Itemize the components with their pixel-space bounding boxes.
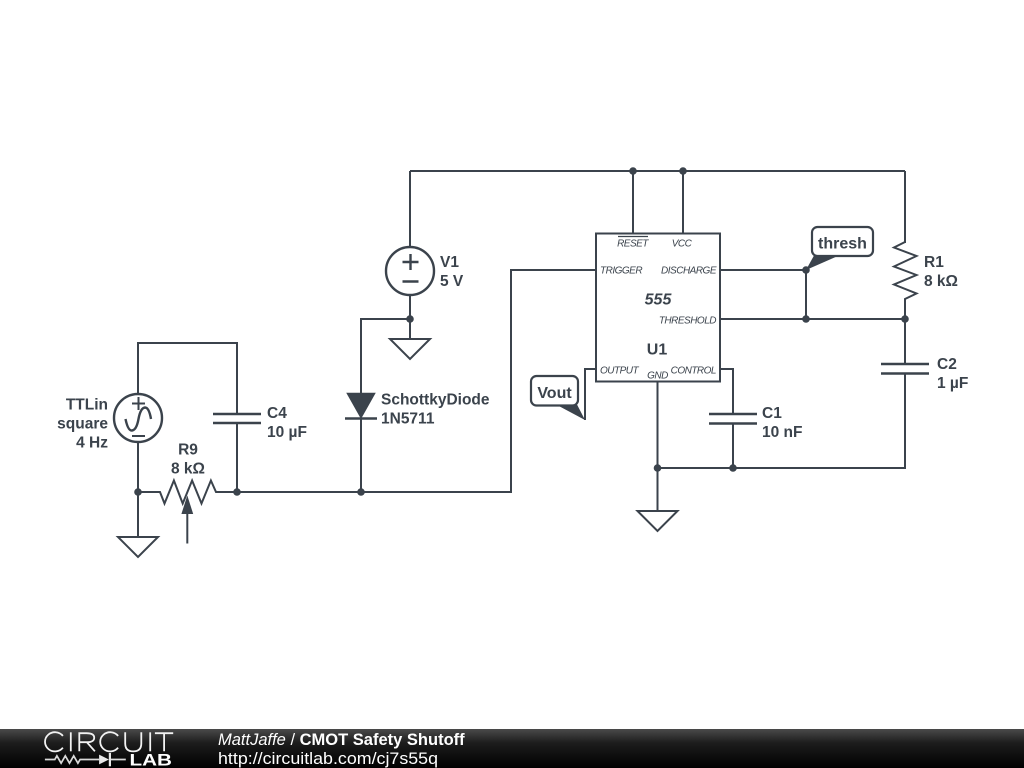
svg-text:CONTROL: CONTROL <box>671 366 716 377</box>
svg-text:THRESHOLD: THRESHOLD <box>659 316 716 327</box>
svg-text:LAB: LAB <box>130 751 173 768</box>
wire rail down to R1 <box>904 171 906 243</box>
node diode junction <box>357 488 365 496</box>
node junction RESET on rail <box>629 167 637 175</box>
wire C2 down to bottom net <box>658 374 905 469</box>
capacitor C2 <box>881 356 968 392</box>
svg-text:Vout: Vout <box>537 385 572 402</box>
svg-text:C4: C4 <box>267 405 287 422</box>
wire GND pin down <box>657 382 659 469</box>
svg-text:GND: GND <box>647 371 668 382</box>
wire V1 to ground node <box>409 295 411 319</box>
svg-text:TRIGGER: TRIGGER <box>600 266 642 277</box>
voltage source V2 TTLin <box>57 394 162 452</box>
flag Vout <box>531 376 585 420</box>
wire V1 minus to diode anode <box>361 319 410 393</box>
node GND junction <box>654 464 662 472</box>
svg-text:V1: V1 <box>440 254 459 271</box>
wire C4 down to node <box>236 423 238 492</box>
svg-text:thresh: thresh <box>818 236 867 253</box>
ground G2 <box>118 492 158 557</box>
voltage source V1 <box>386 247 464 295</box>
node discharge junction <box>802 266 810 274</box>
svg-text:1 µF: 1 µF <box>937 375 968 392</box>
svg-text:C2: C2 <box>937 356 957 373</box>
resistor R1 <box>894 242 958 319</box>
CircuitLab logo resistor-diode glyph <box>45 751 172 768</box>
svg-text:http://circuitlab.com/cj7s55q: http://circuitlab.com/cj7s55q <box>218 750 438 768</box>
svg-text:OUTPUT: OUTPUT <box>600 366 640 377</box>
wire diode cathode down <box>360 419 362 493</box>
capacitor C4 <box>213 405 307 441</box>
svg-text:RESET: RESET <box>617 239 649 250</box>
node V1 minus junction <box>406 315 414 323</box>
wire top VCC rail <box>410 170 905 172</box>
diode D1 SchottkyDiode <box>345 392 490 428</box>
svg-text:R9: R9 <box>178 442 198 459</box>
wire discharge to threshold <box>805 270 807 319</box>
CircuitLab logo wordmark <box>45 732 173 751</box>
resistor R9 potentiometer <box>138 442 237 544</box>
svg-text:8 kΩ: 8 kΩ <box>924 273 958 290</box>
ground G3 <box>638 468 678 531</box>
wire VCC pin up to rail <box>682 171 684 234</box>
svg-text:10 nF: 10 nF <box>762 424 802 441</box>
svg-text:555: 555 <box>645 292 673 309</box>
svg-text:SchottkyDiode: SchottkyDiode <box>381 392 490 409</box>
node TTLin junction <box>134 488 142 496</box>
wire THRESHOLD pin <box>720 318 905 320</box>
svg-text:R1: R1 <box>924 254 944 271</box>
svg-text:U1: U1 <box>647 342 668 359</box>
svg-text:C1: C1 <box>762 405 782 422</box>
node C4 junction <box>233 488 241 496</box>
capacitor C1 <box>709 405 802 441</box>
svg-text:DISCHARGE: DISCHARGE <box>661 266 717 277</box>
node junction VCC on rail <box>679 167 687 175</box>
svg-text:5 V: 5 V <box>440 273 464 290</box>
node C1 junction <box>729 464 737 472</box>
wire main bottom net to trigger <box>237 270 596 492</box>
ground G1 <box>390 319 430 359</box>
footer bar <box>0 729 1024 768</box>
svg-text:1N5711: 1N5711 <box>381 411 435 428</box>
svg-text:TTLin: TTLin <box>66 397 108 414</box>
wire TTLin top to C4 <box>138 343 237 414</box>
svg-text:square: square <box>57 416 108 433</box>
svg-text:10 µF: 10 µF <box>267 424 307 441</box>
wire C1 down to bottom net <box>732 424 734 469</box>
svg-text:8 kΩ: 8 kΩ <box>171 461 205 478</box>
wire CONTROL pin to C1 <box>720 369 733 414</box>
node threshold junction <box>802 315 810 323</box>
wire RESET pin up to rail <box>632 171 634 234</box>
svg-text:VCC: VCC <box>672 239 693 250</box>
wire TTLin bottom <box>137 442 139 492</box>
wire DISCHARGE pin <box>720 269 806 271</box>
flag thresh <box>806 227 873 270</box>
node R1 bottom junction <box>901 315 909 323</box>
wire rail to V1 <box>409 171 411 247</box>
svg-text:4 Hz: 4 Hz <box>76 435 108 452</box>
wire R1 to C2 <box>904 319 906 364</box>
wire OUTPUT pin to Vout flag <box>585 369 596 420</box>
svg-text:MattJaffe / CMOT Safety Shutof: MattJaffe / CMOT Safety Shutoff <box>218 731 465 749</box>
IC U1 555 box <box>596 234 720 382</box>
